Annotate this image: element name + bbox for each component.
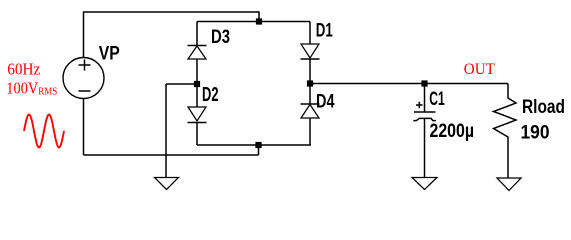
svg-text:C1: C1 — [429, 89, 445, 110]
svg-text:D2: D2 — [202, 84, 219, 106]
svg-text:VP: VP — [99, 43, 120, 64]
svg-text:OUT: OUT — [464, 61, 495, 78]
svg-text:D4: D4 — [316, 92, 335, 113]
svg-text:190: 190 — [521, 122, 550, 143]
svg-text:D1: D1 — [316, 21, 333, 42]
svg-text:D3: D3 — [211, 27, 230, 48]
svg-text:100V: 100V — [6, 79, 39, 98]
svg-text:60Hz: 60Hz — [7, 60, 40, 79]
svg-text:RMS: RMS — [38, 87, 57, 98]
svg-text:Rload: Rload — [522, 97, 565, 118]
svg-text:2200µ: 2200µ — [430, 121, 475, 142]
